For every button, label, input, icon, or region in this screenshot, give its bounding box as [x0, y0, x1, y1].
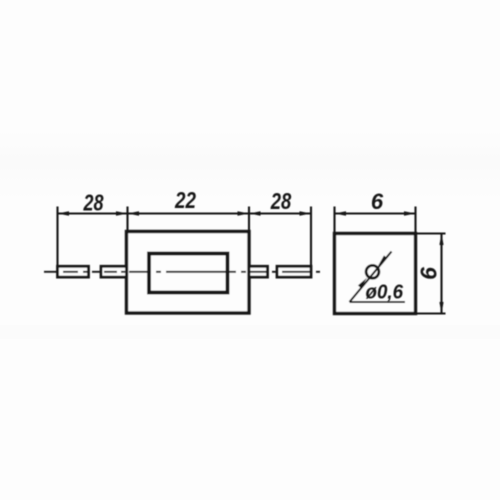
svg-text:28: 28 — [270, 188, 291, 214]
svg-text:28: 28 — [83, 190, 104, 216]
svg-text:ø0,6: ø0,6 — [366, 281, 404, 304]
svg-text:6: 6 — [371, 189, 384, 214]
svg-text:6: 6 — [416, 267, 442, 280]
svg-text:22: 22 — [174, 187, 196, 213]
